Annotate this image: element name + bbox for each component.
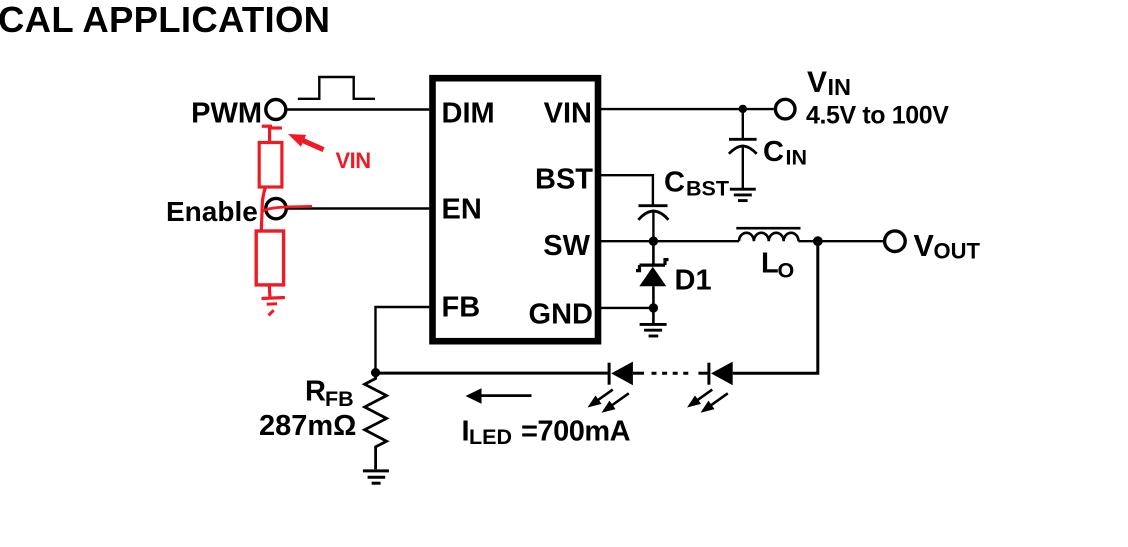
LED D3 light arrows	[684, 385, 715, 411]
LED D2 light arrows	[584, 385, 615, 411]
wire GND	[601, 307, 653, 309]
terminal PWM	[266, 100, 286, 120]
svg-text:R: R	[305, 375, 326, 407]
current direction arrow	[478, 394, 532, 397]
terminal VOUT	[885, 231, 906, 252]
svg-text:=700mA: =700mA	[521, 415, 631, 447]
ground D1	[640, 324, 667, 336]
terminal Enable	[266, 198, 286, 218]
terminal VIN	[775, 99, 795, 119]
capacitor CIN	[742, 109, 744, 139]
wire PWM to DIM	[286, 108, 430, 110]
node SW junction	[649, 237, 658, 246]
wire VIN	[601, 108, 774, 110]
IC U1 body	[433, 78, 599, 341]
LED D2	[608, 363, 611, 385]
ground RFB	[363, 471, 389, 483]
node VIN junction	[739, 105, 747, 113]
wire SW to VOUT	[799, 240, 885, 242]
ground CIN	[730, 189, 756, 200]
capacitor CBST	[639, 204, 668, 207]
node GND junction	[649, 303, 658, 312]
node FB junction	[371, 368, 380, 377]
svg-text:FB: FB	[442, 292, 481, 324]
svg-text:LED: LED	[469, 425, 512, 449]
svg-text:BST: BST	[686, 177, 729, 201]
svg-text:L: L	[761, 248, 779, 280]
svg-text:GND: GND	[529, 299, 593, 331]
svg-text:D1: D1	[675, 265, 712, 297]
wire FB junction to LED1	[376, 372, 608, 375]
annotation arrow VIN (red)	[285, 128, 326, 155]
LED D3	[707, 363, 710, 385]
wire red EN tap	[262, 206, 312, 211]
svg-text:CAL APPLICATION: CAL APPLICATION	[0, 0, 330, 40]
svg-text:C: C	[664, 167, 685, 199]
svg-text:EN: EN	[442, 194, 482, 226]
wire EN	[288, 207, 430, 209]
svg-text:VIN: VIN	[336, 148, 371, 173]
svg-text:BST: BST	[535, 164, 593, 196]
svg-text:V: V	[807, 66, 827, 99]
inductor LO	[736, 227, 800, 230]
svg-text:287mΩ: 287mΩ	[259, 410, 356, 442]
svg-text:IN: IN	[786, 146, 808, 170]
svg-text:O: O	[778, 259, 795, 283]
svg-text:SW: SW	[543, 230, 590, 262]
wire red R1 to R2	[261, 187, 265, 231]
svg-text:OUT: OUT	[934, 239, 981, 264]
ground red	[262, 298, 285, 299]
resistor R1 (red)	[262, 125, 272, 128]
svg-text:VIN: VIN	[544, 98, 592, 130]
svg-text:PWM: PWM	[191, 98, 262, 130]
wire FB	[376, 307, 430, 373]
wire BST	[601, 175, 653, 204]
svg-text:FB: FB	[325, 387, 354, 411]
wire SW	[601, 240, 739, 242]
svg-text:Enable: Enable	[166, 196, 258, 227]
svg-text:C: C	[763, 136, 784, 168]
dashed wire between LEDs	[652, 372, 689, 375]
svg-text:4.5V to 100V: 4.5V to 100V	[806, 101, 949, 129]
diode D1	[652, 241, 655, 265]
node VOUT junction	[813, 236, 823, 246]
svg-text:V: V	[914, 229, 935, 263]
resistor R2 (red)	[256, 231, 283, 285]
svg-text:DIM: DIM	[442, 98, 495, 130]
svg-text:IN: IN	[828, 74, 852, 100]
wire VOUT down to LED string	[733, 241, 818, 373]
resistor RFB	[365, 373, 387, 470]
pulse waveform	[298, 77, 375, 99]
